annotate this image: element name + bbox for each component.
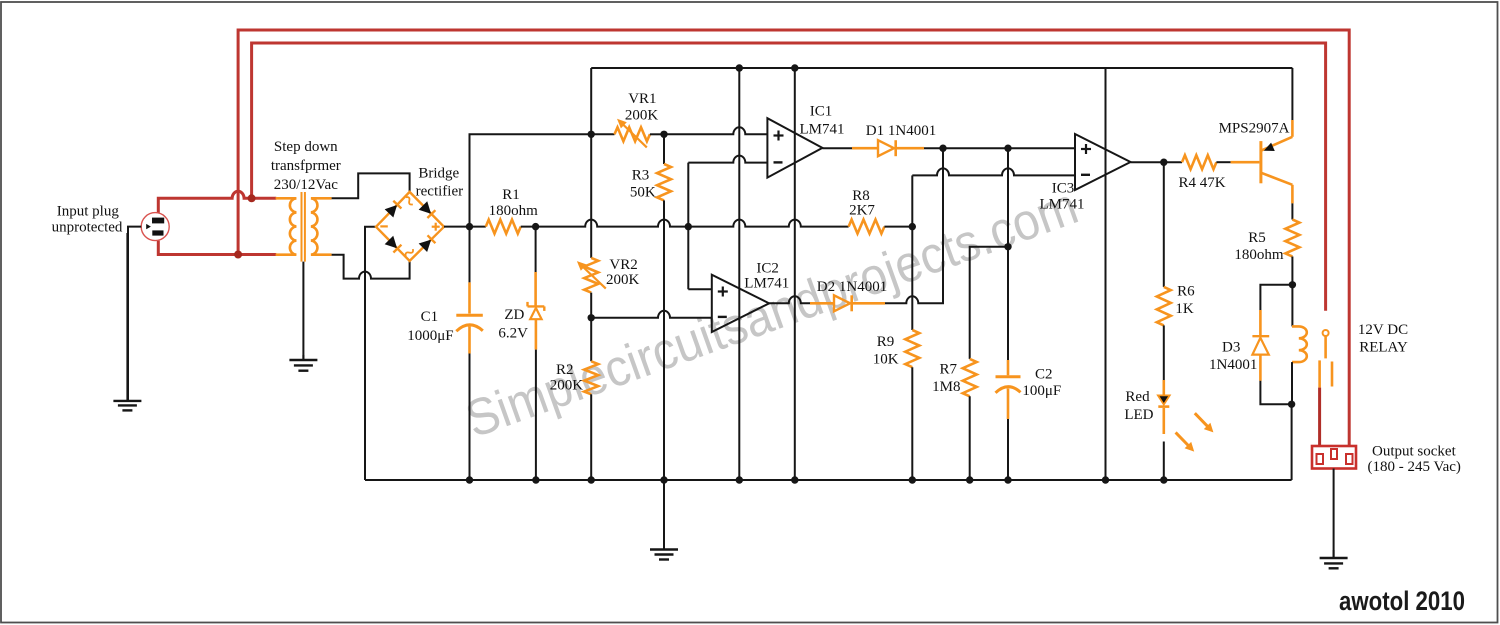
bridge AC squiggle top [404, 196, 414, 206]
wire R9 to bus [911, 367, 913, 480]
label VR1 [628, 91, 656, 107]
bridge diode bottom-left [386, 237, 402, 253]
wire rail 739 [738, 68, 740, 480]
transformer T1 primary coil [276, 198, 297, 254]
relay contact fixed [1323, 330, 1329, 358]
junction node R5 bottom [1289, 281, 1296, 288]
svg-text:MPS2907A: MPS2907A [1219, 120, 1290, 136]
label 180ohm [1234, 247, 1284, 263]
junction node ZD top [532, 223, 539, 230]
wire relay coil to node [1291, 362, 1293, 404]
svg-text:1N4001: 1N4001 [1209, 357, 1257, 373]
svg-text:VR1: VR1 [628, 91, 656, 107]
svg-text:C2: C2 [1035, 366, 1053, 382]
wire bridge minus to bottom bus [365, 227, 376, 480]
svg-text:LM741: LM741 [800, 122, 845, 138]
label IC3 [1052, 181, 1075, 197]
wire R7 to bus [969, 396, 971, 480]
label D1 1N4001 [866, 123, 936, 139]
LED arrow 2 [1176, 432, 1195, 451]
wire socket to ground [1333, 469, 1335, 559]
wire IC1 plus input [664, 127, 767, 134]
junction bus node ground [660, 476, 667, 483]
relay contact blade right [1331, 362, 1334, 387]
label Red [1125, 389, 1150, 405]
label C2 [1035, 366, 1053, 382]
label 50K [630, 185, 656, 201]
wire node to VR1 [591, 133, 614, 135]
wire rail 794 [794, 68, 796, 480]
wire mains inner red [252, 43, 1326, 311]
label 6.2V [498, 326, 528, 342]
svg-text:R1: R1 [502, 187, 520, 203]
IC2 minus sign [718, 316, 727, 318]
bridge diode top-left [386, 201, 402, 217]
wire mains outer red [238, 30, 1349, 446]
wire C2 to bus [1007, 419, 1009, 480]
wire VR1 to node [650, 133, 664, 135]
label Step down [274, 139, 338, 155]
label LM741 [744, 275, 789, 291]
svg-text:R7: R7 [940, 362, 958, 378]
input plug P1 [141, 213, 169, 241]
bridge minus sign [380, 225, 388, 227]
diode D1 [878, 140, 896, 156]
wire D3 to node [1260, 381, 1291, 405]
IC3 minus sign [1081, 174, 1090, 176]
svg-text:Step down: Step down [274, 139, 338, 155]
label D2 1N4001 [817, 279, 887, 295]
wire IC2 output [769, 296, 834, 303]
svg-text:180ohm: 180ohm [489, 203, 539, 219]
wire R1 to R8 (main rail) [521, 220, 849, 227]
svg-text:IC3: IC3 [1052, 181, 1075, 197]
junction node C1 top [466, 223, 473, 230]
wire secondary bottom to bridge [332, 255, 410, 279]
label (180 - 245 Vac) [1367, 459, 1460, 475]
label 180ohm [489, 203, 539, 219]
junction bus node C2 [1004, 476, 1011, 483]
label LED [1124, 407, 1153, 423]
label 1N4001 [1209, 357, 1257, 373]
bridge diode top-right [420, 202, 436, 218]
resistor R6 [1157, 287, 1171, 326]
label R1 [502, 187, 520, 203]
output socket [1312, 446, 1356, 469]
label 10K [873, 352, 899, 368]
wire node to R7 [970, 247, 1008, 359]
junction node R7 top [1004, 243, 1011, 250]
wire C1 to bus [469, 354, 471, 481]
bridge diode bottom-right [420, 235, 436, 251]
resistor R4 [1182, 155, 1216, 169]
label R6 [1177, 283, 1195, 299]
bridge rectifier BR1 diamond [376, 192, 444, 261]
label 100μF [1022, 383, 1061, 399]
watermark simplecircuitsandprojects.com [458, 177, 1085, 449]
svg-text:230/12Vac: 230/12Vac [274, 177, 338, 193]
junction bus node C1 [466, 476, 473, 483]
svg-text:R9: R9 [877, 334, 895, 350]
label transfprmer [271, 158, 341, 174]
svg-text:rectifier: rectifier [416, 184, 463, 200]
resistor R3 [657, 164, 671, 200]
label R4 47K [1178, 175, 1225, 191]
resistor R8 [849, 220, 885, 234]
junction node VR1 left [588, 131, 595, 138]
svg-text:unprotected: unprotected [52, 220, 123, 236]
svg-text:D1 1N4001: D1 1N4001 [866, 123, 936, 139]
relay coil [1292, 326, 1307, 362]
svg-text:100μF: 100μF [1022, 383, 1061, 399]
label LM741 [800, 122, 845, 138]
wire IC2 minus input [591, 311, 712, 318]
junction node rail688 main [685, 223, 692, 230]
op-amp IC3 [1075, 134, 1131, 190]
wire plug to transformer bottom (red) [158, 241, 276, 255]
bridge AC squiggle bottom [404, 248, 414, 258]
svg-text:R2: R2 [556, 362, 574, 378]
svg-text:Bridge: Bridge [418, 166, 459, 182]
svg-text:LM741: LM741 [744, 275, 789, 291]
bridge plus sign [432, 223, 440, 231]
junction node IC3 out [1160, 159, 1167, 166]
label ZD [504, 307, 524, 323]
svg-text:RELAY: RELAY [1359, 339, 1408, 355]
label R5 [1248, 230, 1266, 246]
wire D2 to OR node [852, 148, 943, 303]
svg-text:180ohm: 180ohm [1234, 247, 1284, 263]
diode D3 [1252, 336, 1269, 381]
wire bridge plus to R1 [444, 226, 486, 228]
wire VR1 node to R3 [663, 134, 665, 164]
IC2 plus sign [718, 287, 728, 297]
resistor R5 [1285, 220, 1299, 257]
wire R8 node to IC3 minus [912, 168, 1075, 226]
label unprotected [52, 220, 123, 236]
junction node top bus 739 [736, 64, 743, 71]
VR1 arrow [617, 119, 647, 148]
wire C1 node up to VR1 node [470, 134, 592, 226]
svg-text:LM741: LM741 [1040, 196, 1085, 212]
svg-text:R6: R6 [1177, 283, 1195, 299]
svg-text:awotol 2010: awotol 2010 [1339, 586, 1465, 616]
svg-text:transfprmer: transfprmer [271, 158, 341, 174]
label VR2 [609, 257, 637, 273]
wire D3 branch top [1260, 285, 1292, 336]
IC1 minus sign [774, 161, 783, 163]
svg-text:2K7: 2K7 [849, 203, 875, 219]
wire IC2 plus input [688, 288, 712, 290]
zener diode ZD [528, 302, 545, 350]
junction node R8 right [909, 223, 916, 230]
wire R6 to LED [1163, 325, 1165, 395]
label 1000μF [407, 328, 453, 344]
potentiometer VR1 [615, 127, 650, 141]
label LM741 [1040, 196, 1085, 212]
wire LED to bus [1163, 442, 1165, 481]
label Bridge [418, 166, 459, 182]
wire plug to transformer top (red) [158, 191, 276, 212]
svg-text:(180 - 245 Vac): (180 - 245 Vac) [1367, 459, 1460, 475]
svg-text:ZD: ZD [504, 307, 524, 323]
wire secondary top to bridge [332, 173, 410, 198]
label 2K7 [849, 203, 875, 219]
label RELAY [1359, 339, 1408, 355]
junction red dot upper [248, 194, 256, 202]
resistor R1 [486, 220, 521, 234]
wire D1 to IC3 plus [896, 147, 1075, 150]
junction red dot lower [234, 251, 242, 259]
transistor Q1 emitter [1261, 68, 1293, 151]
resistor R9 [905, 330, 919, 367]
signature awotol 2010 [1339, 586, 1465, 616]
transformer T1 core [302, 192, 305, 262]
VR2 arrow [577, 261, 606, 289]
junction node top bus 794 [791, 64, 798, 71]
svg-text:Output socket: Output socket [1372, 444, 1457, 460]
label R2 [556, 362, 574, 378]
label 200K [606, 272, 640, 288]
wire node to ZD [535, 227, 537, 306]
transistor Q1 collector [1261, 173, 1293, 220]
label R9 [877, 334, 895, 350]
wire top bus [591, 67, 1292, 69]
label 1K [1175, 301, 1194, 317]
svg-text:IC1: IC1 [810, 104, 833, 120]
junction bus node ZD [532, 476, 539, 483]
wire relay contact to socket [1318, 388, 1321, 446]
junction node OR D1 [939, 145, 946, 152]
label R7 [940, 362, 958, 378]
svg-text:1K: 1K [1175, 301, 1194, 317]
LED red [1158, 395, 1170, 434]
wire R3 to bus [663, 200, 665, 480]
diode D2 [834, 295, 852, 311]
label IC1 [810, 104, 833, 120]
wire IC3 out node to R6 [1163, 162, 1165, 287]
wire node to C2 [1007, 148, 1009, 375]
capacitor C1 [456, 315, 483, 353]
potentiometer VR2 [584, 258, 598, 293]
wire bus to ground middle [650, 480, 678, 560]
wire transformer core to ground [302, 262, 304, 360]
junction bus node R2 [588, 476, 595, 483]
svg-text:10K: 10K [873, 352, 899, 368]
wire R2 to bus [590, 394, 592, 480]
wire node to bus corner [1291, 404, 1293, 480]
op-amp IC1 [767, 118, 822, 177]
svg-text:IC2: IC2 [756, 261, 779, 277]
wire node to relay coil [1291, 285, 1293, 327]
junction bus node 794 [791, 476, 798, 483]
label rectifier [416, 184, 463, 200]
junction bus node 1105 [1102, 476, 1109, 483]
svg-text:R3: R3 [632, 167, 650, 183]
wire IC3 output [1131, 161, 1183, 163]
svg-text:LED: LED [1124, 407, 1153, 423]
resistor R7 [963, 359, 977, 396]
svg-text:R4 47K: R4 47K [1178, 175, 1225, 191]
label 200K [550, 377, 584, 393]
wire IC1 minus input [688, 156, 767, 163]
svg-text:Input plug: Input plug [57, 204, 120, 220]
junction node VR2 bottom [588, 314, 595, 321]
label IC2 [756, 261, 779, 277]
resistor R9 wire top [911, 227, 913, 330]
resistor R2 [584, 361, 598, 394]
svg-text:200K: 200K [625, 108, 659, 124]
svg-text:Simplecircuitsandprojects.com: Simplecircuitsandprojects.com [458, 177, 1085, 449]
wire node to C1 [469, 227, 471, 314]
junction node relay bottom [1288, 401, 1295, 408]
wire R5 to node [1291, 257, 1293, 285]
label 230/12Vac [274, 177, 338, 193]
wire IC1 output [822, 147, 878, 149]
wire bottom bus [365, 479, 1292, 481]
relay contact blade left [1318, 360, 1321, 387]
svg-text:1M8: 1M8 [932, 379, 960, 395]
svg-text:200K: 200K [606, 272, 640, 288]
junction node IC3 plus rail [1004, 145, 1011, 152]
label Input plug [57, 204, 120, 220]
label 1M8 [932, 379, 960, 395]
svg-text:6.2V: 6.2V [498, 326, 528, 342]
capacitor C2 [996, 377, 1021, 419]
wire rail 1105 [1105, 68, 1107, 480]
wire top bus corner down (rail 591) [590, 68, 592, 258]
junction bus node 739 [736, 476, 743, 483]
wire VR2 to R2 [590, 293, 592, 362]
svg-text:200K: 200K [550, 377, 584, 393]
svg-text:R5: R5 [1248, 230, 1266, 246]
label C1 [421, 309, 439, 325]
svg-text:Red: Red [1125, 389, 1150, 405]
wire ZD to bus [535, 350, 537, 480]
IC3 plus sign [1081, 144, 1091, 154]
op-amp IC2 [712, 275, 769, 332]
wire input plug to ground [128, 227, 141, 401]
svg-text:1000μF: 1000μF [407, 328, 453, 344]
junction bus node LED [1160, 476, 1167, 483]
svg-text:D3: D3 [1222, 340, 1240, 356]
label D3 [1222, 340, 1240, 356]
label 12V DC [1358, 322, 1408, 338]
transformer T1 secondary coil [311, 198, 332, 254]
svg-text:C1: C1 [421, 309, 439, 325]
junction bus node R7 [966, 476, 973, 483]
svg-text:50K: 50K [630, 185, 656, 201]
transistor Q1 base bar [1259, 141, 1262, 183]
ground input [113, 233, 141, 410]
svg-text:D2 1N4001: D2 1N4001 [817, 279, 887, 295]
svg-text:12V DC: 12V DC [1358, 322, 1408, 338]
wire rail 688 vertical [687, 163, 689, 290]
LED arrow 1 [1195, 413, 1214, 432]
junction node VR1 right [660, 131, 667, 138]
junction bus node R9 [909, 476, 916, 483]
label R3 [632, 167, 650, 183]
label R8 [852, 188, 870, 204]
label 200K [625, 108, 659, 124]
ground transformer [289, 355, 317, 371]
ground output [1320, 550, 1348, 568]
label MPS2907A [1219, 120, 1290, 136]
wire R4 to Q1 base [1216, 161, 1259, 163]
IC1 plus sign [774, 131, 784, 141]
wire R8 to node [884, 226, 912, 228]
svg-text:VR2: VR2 [609, 257, 637, 273]
label Output socket [1372, 444, 1457, 460]
